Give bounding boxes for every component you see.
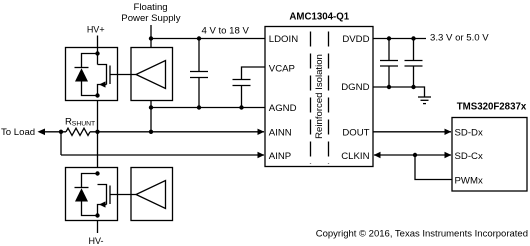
node CLKIN/PWM junction bbox=[413, 153, 417, 157]
svg-text:DGND: DGND bbox=[341, 82, 369, 93]
wire driver bottom stub to AGND rail and AINN line bbox=[150, 101, 152, 132]
svg-text:CLKIN: CLKIN bbox=[341, 151, 369, 162]
wire load line to shunt bbox=[44, 131, 66, 133]
node driver stub on AGND rail bbox=[149, 105, 153, 109]
svg-text:AMC1304-Q1: AMC1304-Q1 bbox=[289, 12, 349, 23]
wire DVDD rail bbox=[373, 38, 426, 40]
svg-text:AINP: AINP bbox=[269, 151, 291, 162]
gate driver box (low side) bbox=[131, 168, 173, 221]
wire CLKIN to SD-Cx bbox=[374, 154, 451, 156]
svg-text:Reinforced Isolation: Reinforced Isolation bbox=[314, 54, 325, 139]
wire DGND rail bbox=[373, 87, 425, 97]
capacitor C2 (VCAP) bbox=[233, 67, 266, 108]
svg-text:PWMx: PWMx bbox=[455, 175, 483, 186]
node C4 top bbox=[411, 36, 415, 40]
node Q2 collector junction bbox=[95, 171, 99, 175]
node Q2 emitter junction bbox=[95, 213, 99, 217]
wire AGND rail bbox=[151, 107, 265, 109]
wire Q1 gate bbox=[110, 74, 136, 76]
svg-text:LDOIN: LDOIN bbox=[269, 34, 298, 45]
svg-text:SD-Dx: SD-Dx bbox=[455, 127, 483, 138]
wire floating supply stub to high-side driver bbox=[150, 25, 152, 48]
arrow to load bbox=[38, 129, 46, 136]
gate driver box (high side) bbox=[131, 48, 173, 101]
svg-text:TMS320F2837x: TMS320F2837x bbox=[457, 101, 527, 112]
svg-text:HV+: HV+ bbox=[87, 25, 105, 35]
wire Q2 gate bbox=[110, 194, 136, 196]
svg-text:Floating: Floating bbox=[134, 2, 168, 13]
node C4 bottom bbox=[411, 85, 415, 89]
diode D2 (low-side freewheeling diode) bbox=[75, 174, 98, 216]
svg-text:3.3 V or 5.0 V: 3.3 V or 5.0 V bbox=[430, 32, 489, 43]
isolation barrier dashed line right bbox=[328, 32, 330, 165]
capacitor C4 (DVDD bypass) bbox=[405, 39, 423, 88]
wire HV+ down to high-side module bbox=[97, 36, 99, 65]
wire PWMx feedback bbox=[415, 155, 452, 180]
op-amp U1 AMC1304-Q1 box bbox=[265, 27, 373, 167]
wire module to HV- bbox=[97, 221, 99, 234]
svg-text:AGND: AGND bbox=[269, 103, 297, 114]
svg-text:DVDD: DVDD bbox=[342, 34, 369, 45]
IGBT module box (low side) bbox=[66, 168, 118, 221]
node C3 top bbox=[387, 36, 391, 40]
svg-text:AINN: AINN bbox=[269, 127, 292, 138]
node C3 bottom bbox=[387, 85, 391, 89]
arrow into SD-Cx pin bbox=[445, 152, 452, 158]
node shunt left / AINP tap bbox=[59, 130, 63, 134]
gate driver amplifier (low side) bbox=[136, 181, 166, 209]
svg-text:HV-: HV- bbox=[88, 236, 103, 246]
svg-text:VCAP: VCAP bbox=[269, 64, 295, 75]
svg-text:Power Supply: Power Supply bbox=[121, 13, 180, 24]
svg-text:4 V to 18 V: 4 V to 18 V bbox=[201, 26, 249, 37]
node C2 bottom on AGND rail bbox=[239, 105, 243, 109]
gate driver amplifier (high side) bbox=[136, 61, 166, 89]
capacitor C3 (DVDD bypass) bbox=[380, 39, 398, 88]
isolation barrier dashed line left bbox=[310, 32, 312, 165]
wire AINP line bbox=[61, 154, 264, 156]
svg-text:SHUNT: SHUNT bbox=[72, 121, 95, 128]
diode D1 (high-side freewheeling diode) bbox=[75, 54, 98, 96]
IGBT module box (high side) bbox=[66, 48, 118, 101]
svg-text:Copyright © 2016, Texas Instru: Copyright © 2016, Texas Instruments Inco… bbox=[316, 228, 528, 239]
node Q1 collector junction bbox=[95, 51, 99, 55]
wire AINN line bbox=[90, 131, 264, 133]
node shunt right / phase node bbox=[95, 130, 99, 134]
node supply stub on LDOIN rail bbox=[149, 36, 153, 40]
wire AINP drop from shunt left bbox=[60, 132, 62, 155]
node C1 top on LDOIN rail bbox=[197, 36, 201, 40]
capacitor C1 (LDOIN bypass) bbox=[190, 39, 208, 108]
resistor RSHUNT bbox=[66, 128, 90, 135]
transistor Q2 (low-side IGBT) bbox=[98, 185, 111, 216]
node AGND tie on AINN line bbox=[149, 130, 153, 134]
svg-text:To Load: To Load bbox=[1, 127, 35, 138]
arrow into AINP pin bbox=[258, 152, 265, 158]
node C1 bottom on AGND rail bbox=[197, 105, 201, 109]
svg-text:SD-Cx: SD-Cx bbox=[455, 151, 483, 162]
svg-text:DOUT: DOUT bbox=[342, 127, 369, 138]
arrow into AINN pin bbox=[258, 129, 265, 135]
label RSHUNT bbox=[65, 117, 95, 128]
ground bbox=[418, 97, 431, 104]
label Floating Power Supply bbox=[121, 2, 180, 24]
wire phase vertical between modules bbox=[97, 101, 99, 168]
wire LDOIN rail bbox=[151, 38, 265, 40]
node Q1 emitter junction bbox=[95, 93, 99, 97]
MCU TMS320F2837x box bbox=[452, 118, 527, 192]
transistor Q1 (high-side IGBT) bbox=[98, 65, 111, 96]
wire DOUT to SD-Dx bbox=[373, 131, 451, 133]
arrow into CLKIN pin bbox=[374, 152, 381, 158]
arrow into SD-Dx pin bbox=[445, 129, 452, 135]
